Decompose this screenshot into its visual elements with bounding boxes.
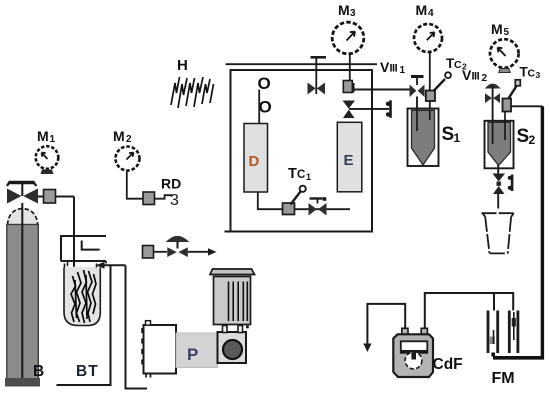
svg-text:BT: BT [76, 363, 99, 380]
wire: fitting to vent valve [154, 251, 168, 253]
gas cylinder B base [5, 378, 40, 387]
thermocouple TC3 lead and head [509, 80, 521, 99]
svg-text:1: 1 [454, 131, 461, 145]
svg-text:CdF: CdF [433, 356, 463, 373]
wire: S2 outlet to right header [511, 105, 542, 107]
wire: vent line with down arrow (left of CdF) [363, 304, 405, 352]
svg-text:3: 3 [350, 8, 356, 19]
condenser CdF stubs [402, 328, 428, 334]
wire: fitting to rupture disc [155, 195, 173, 199]
valve V-B on cylinder B [7, 182, 38, 204]
svg-text:M: M [37, 128, 49, 144]
fitting (gray) below M3 [343, 81, 353, 93]
motor cap [210, 269, 255, 275]
needle sampling valve below M3 fitting [343, 101, 356, 119]
svg-text:M: M [416, 2, 428, 18]
gauge M1 [36, 146, 59, 174]
svg-text:4: 4 [428, 8, 434, 19]
arrow into BT head [96, 262, 126, 269]
column E [337, 122, 362, 192]
oven box (furnace enclosure) [225, 70, 373, 232]
svg-text:S: S [517, 126, 530, 147]
svg-text:1: 1 [50, 134, 56, 145]
wire: M4 stem down to S1 [429, 53, 431, 92]
pump P body [176, 333, 218, 368]
thermocouple TC1 fitting [283, 203, 295, 215]
injection ports O O [258, 74, 272, 117]
pump coupling box with bearing [218, 332, 247, 363]
fitting (gray) before rupture disc [143, 192, 155, 205]
svg-text:1: 1 [400, 65, 406, 76]
svg-text:2: 2 [126, 134, 132, 145]
BT vessel outline [64, 268, 100, 326]
wire with arrow to right (vent) [188, 248, 217, 255]
valve on vent stem [308, 83, 326, 95]
CdF inner window [401, 341, 428, 369]
S2 inlet valve with dome handle [485, 84, 500, 120]
svg-text:1: 1 [306, 172, 311, 182]
condenser CdF body [393, 334, 433, 377]
vent stem with T-cap (top of oven) [311, 57, 327, 94]
wire: cylinder valve to fitting [38, 196, 74, 198]
svg-text:5: 5 [504, 27, 510, 38]
BT vessel body [64, 267, 101, 326]
svg-text:O: O [259, 98, 272, 117]
gauge M2 [116, 147, 140, 171]
svg-text:III: III [472, 71, 480, 83]
gas cylinder B dome [8, 209, 38, 226]
svg-text:3: 3 [536, 70, 541, 80]
separator S2 holder outline [485, 121, 514, 169]
separator S2 vessel [488, 122, 511, 165]
heater squiggle marks H [171, 77, 214, 108]
gauge M3 [332, 22, 364, 54]
FM bottom manifold (thick) [493, 353, 544, 358]
column D [244, 124, 268, 193]
BT vessel flange ticks [65, 264, 97, 268]
svg-text:C: C [454, 59, 462, 71]
wire: drain valve to beaker [497, 194, 499, 209]
svg-text:2: 2 [529, 133, 536, 147]
svg-text:M: M [491, 21, 503, 37]
thermowell TC2 fitting on S1 [426, 91, 435, 110]
dip tube line inside S2 [493, 112, 505, 145]
coil squiggles inside BT [71, 270, 96, 323]
flow meter FM right tube [508, 311, 519, 354]
vent valve with dome handle [167, 237, 188, 257]
svg-text:B: B [33, 363, 44, 380]
septum port symbol [386, 100, 392, 118]
svg-text:C: C [297, 169, 305, 181]
wire: sampling valve to septum port [349, 108, 389, 110]
collection beaker [482, 213, 515, 253]
vent fitting (gray square) mid-left [143, 246, 154, 259]
wire: down from fitting line into BT head [73, 197, 75, 321]
svg-text:FM: FM [492, 370, 515, 387]
svg-text:3: 3 [170, 192, 179, 209]
wire: column D bottom run [258, 192, 350, 209]
svg-text:M: M [113, 128, 125, 144]
svg-text:C: C [528, 68, 536, 80]
svg-text:M: M [338, 2, 350, 18]
separator S1 vessel [412, 110, 435, 165]
svg-text:T: T [288, 166, 297, 182]
gas cylinder B handwheel [7, 182, 36, 186]
valve on column D bottom run [309, 197, 327, 215]
drain valve below S2 [493, 174, 506, 195]
svg-text:V: V [462, 67, 472, 83]
motor body [214, 277, 251, 325]
thermowell TC3 fitting on S2 [503, 99, 512, 112]
wire: from arrow corner down and to pump [126, 265, 148, 388]
wire: BT drain down-left [57, 265, 111, 385]
wire: M2 down and to RD fitting [127, 171, 143, 199]
pump head box (dashed flange) [143, 321, 177, 378]
gauge M5 [490, 39, 519, 72]
thermocouple TC1 lead and head [291, 186, 306, 205]
separator S1 holder outline [408, 109, 439, 167]
svg-text:III: III [390, 63, 398, 75]
gas cylinder B body [7, 225, 39, 380]
dip tube line inside S1 [417, 110, 430, 131]
svg-text:RD: RD [161, 176, 181, 192]
svg-text:P: P [187, 345, 198, 364]
wire: CdF to FM header [425, 293, 513, 329]
svg-text:H: H [177, 57, 188, 74]
svg-text:2: 2 [482, 73, 488, 84]
svg-text:V: V [380, 59, 390, 75]
BT head box [61, 236, 107, 266]
fitting (gray) on cylinder outlet line [44, 190, 56, 204]
dip tube into S1 [416, 97, 418, 132]
wire: O ports to column D [258, 90, 260, 125]
S1 inlet valve with T-handle [410, 77, 425, 98]
wire: S2 cone to drain valve [497, 165, 499, 175]
wire: VIII1 line to S1 valve [354, 89, 411, 91]
wire: M3 stem down [349, 54, 351, 81]
flow meter FM left tube [487, 311, 499, 354]
svg-text:E: E [344, 152, 354, 169]
svg-text:S: S [442, 124, 455, 145]
dip tube inside cylinder B [21, 203, 23, 382]
level tube L-mark inside BT head [82, 241, 100, 250]
clamp symbol next to drain valve [508, 175, 514, 192]
svg-text:D: D [249, 153, 260, 170]
wire: right header down to FM (thick) [493, 106, 542, 357]
motor feet [223, 326, 249, 333]
gauge M4 [414, 24, 442, 52]
thermocouple TC2 lead and head [434, 72, 451, 91]
wire: long top line [226, 63, 378, 65]
